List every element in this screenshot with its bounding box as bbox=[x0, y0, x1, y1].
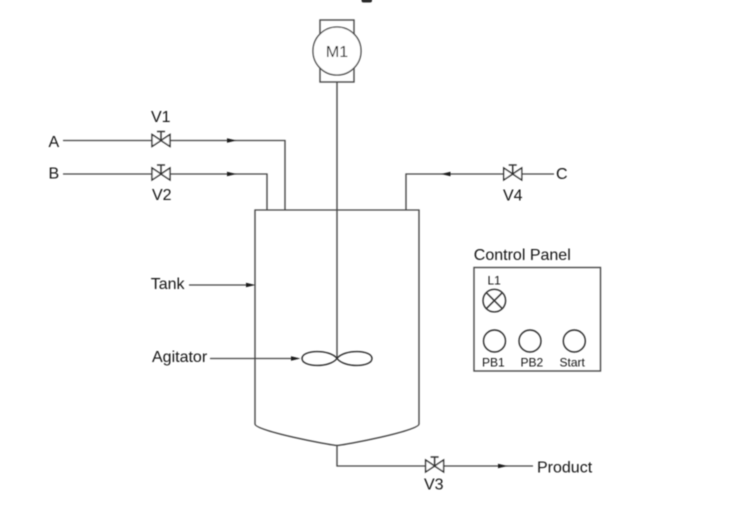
svg-text:V2: V2 bbox=[152, 187, 172, 204]
svg-text:C: C bbox=[556, 166, 568, 183]
svg-text:V4: V4 bbox=[503, 188, 523, 205]
svg-text:Control Panel: Control Panel bbox=[474, 247, 571, 264]
svg-text:Start: Start bbox=[560, 356, 586, 370]
svg-text:PB2: PB2 bbox=[521, 356, 544, 370]
svg-text:L1: L1 bbox=[488, 274, 502, 288]
svg-text:M1: M1 bbox=[326, 44, 348, 61]
svg-text:Product: Product bbox=[537, 459, 593, 476]
svg-text:Tank: Tank bbox=[151, 276, 186, 293]
svg-text:V3: V3 bbox=[424, 477, 444, 494]
svg-text:B: B bbox=[49, 165, 60, 182]
svg-text:Agitator: Agitator bbox=[152, 349, 208, 366]
svg-text:PB1: PB1 bbox=[482, 356, 505, 370]
svg-text:V1: V1 bbox=[151, 109, 171, 126]
svg-text:A: A bbox=[49, 134, 60, 151]
